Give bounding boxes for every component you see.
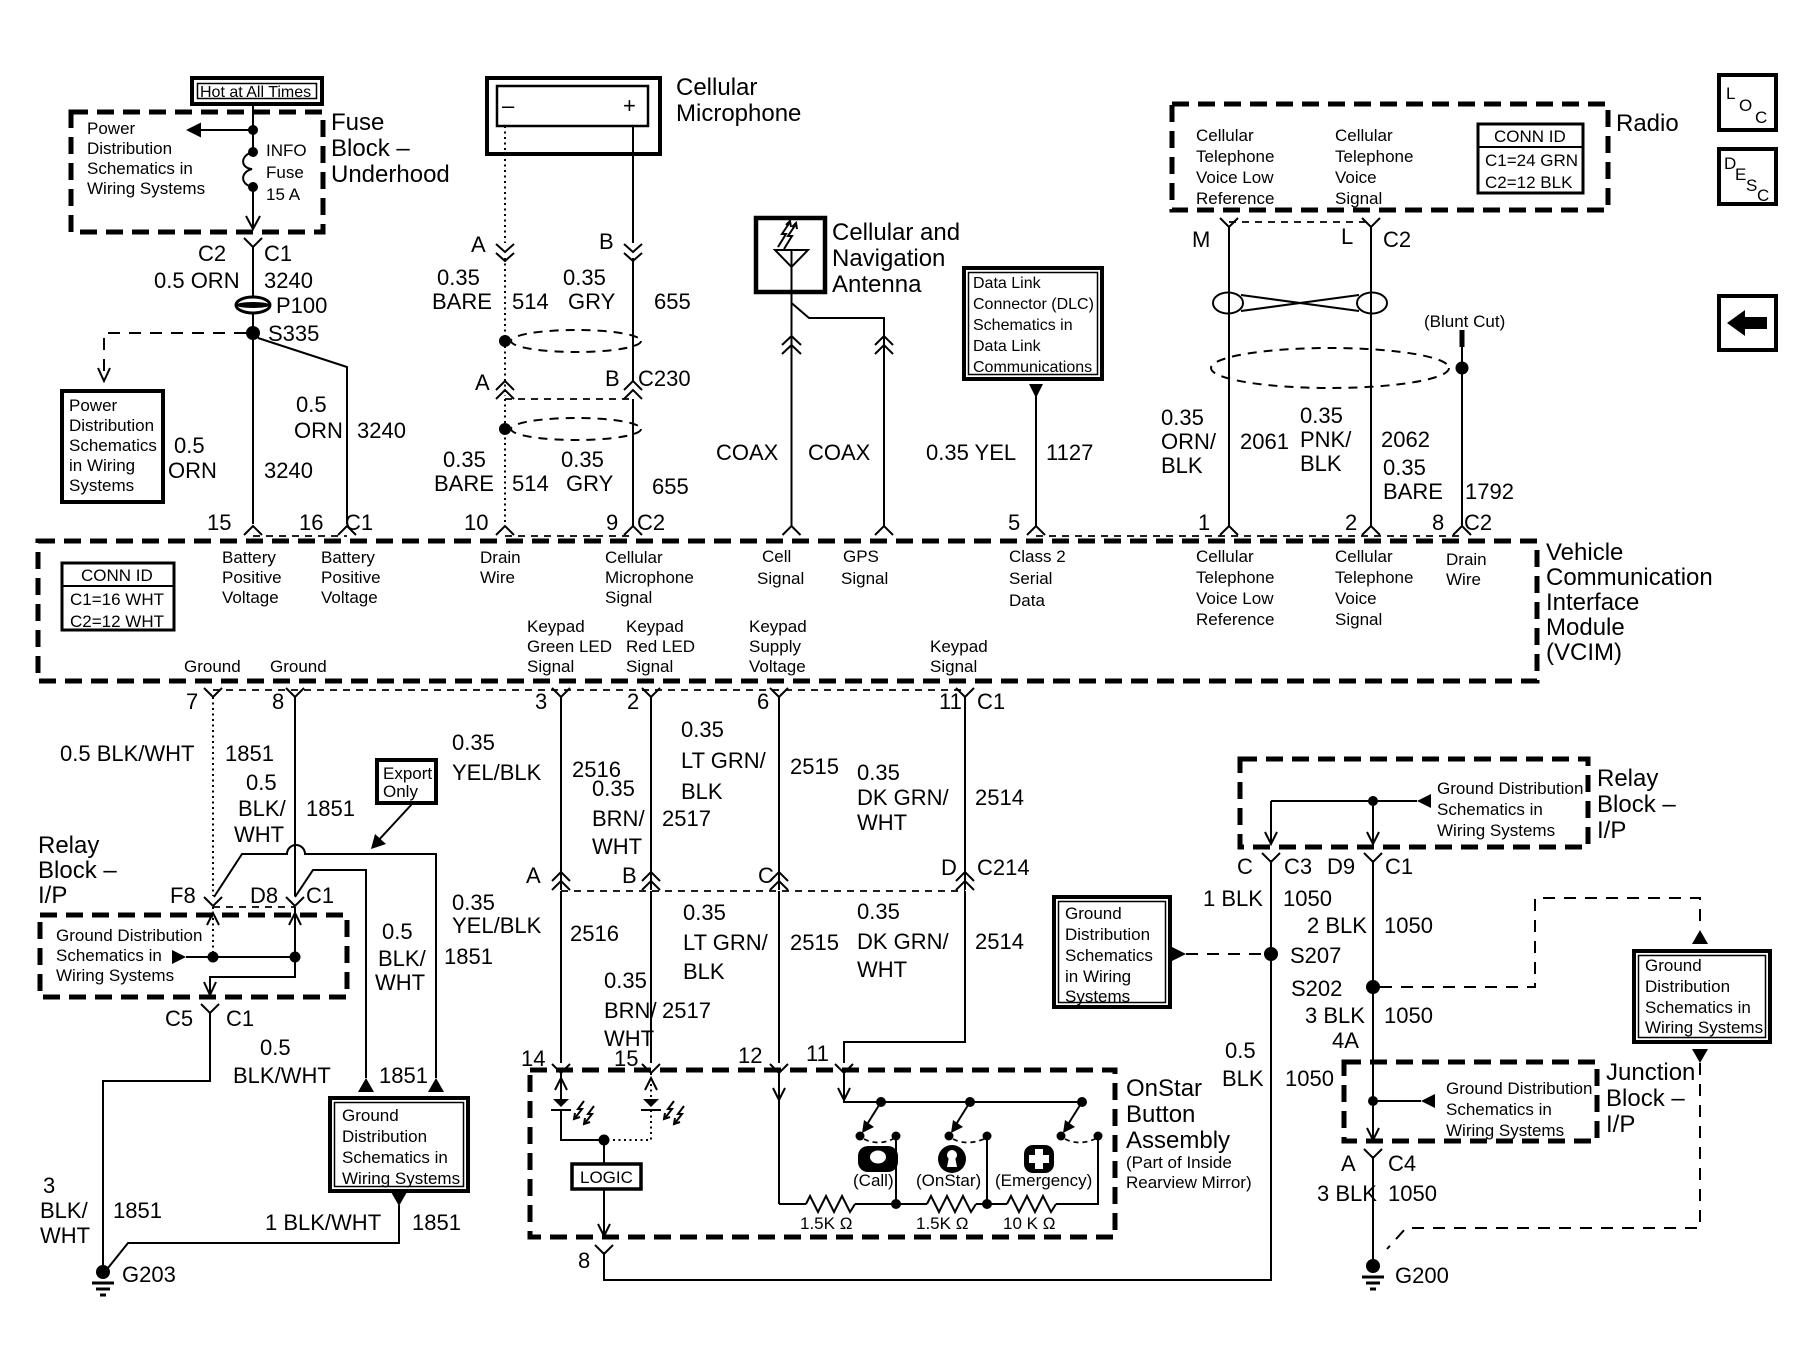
svg-text:C2: C2 [1383,227,1411,252]
junction dot inside junction block [1368,1096,1378,1106]
svg-text:I/P: I/P [1597,817,1626,844]
svg-text:Signal: Signal [605,588,652,607]
svg-text:514: 514 [512,471,549,496]
svg-text:Schematics in: Schematics in [973,317,1073,334]
inline chevrons cell coax [782,336,801,354]
class 2 serial data wire [1035,396,1037,526]
svg-text:Distribution: Distribution [69,416,154,435]
pin 8 exit chevron [286,688,304,697]
svg-text:–: – [502,93,515,118]
svg-text:0.35: 0.35 [1383,455,1426,480]
svg-text:G203: G203 [122,1262,176,1287]
svg-text:S202: S202 [1291,976,1342,1001]
wire P100 to S335 [252,313,254,332]
svg-text:8: 8 [272,689,284,714]
pin 2 exit chevron [642,688,660,697]
svg-text:C1: C1 [226,1006,254,1031]
svg-text:Voltage: Voltage [749,657,806,676]
svg-text:2: 2 [1345,510,1357,535]
wire R2 to R3 [976,1203,1007,1205]
svg-text:Relay: Relay [38,832,99,859]
label Cellular Microphone [676,74,801,127]
pin 8 exit chevron [595,1245,613,1254]
emergency icon [995,1145,1092,1190]
pin 10 connector chevron [496,526,514,535]
cellular microphone box [487,78,660,154]
drain wire 1792 [1461,347,1463,526]
arrow up D8 inside [289,913,301,925]
svg-text:Positive: Positive [222,568,282,587]
arrow down at fuse box exit [246,216,260,229]
node junction at arrow [248,125,258,135]
svg-text:3: 3 [535,689,547,714]
svg-text:Ground: Ground [270,657,327,676]
svg-text:10 K Ω: 10 K Ω [1003,1214,1055,1233]
svg-text:Data: Data [1009,591,1045,610]
radio CONN ID box [1478,124,1583,193]
svg-text:C2: C2 [198,241,226,266]
C214 chevrons wire A [552,872,570,890]
pin 8 chevron [1453,526,1471,535]
svg-text:DK GRN/: DK GRN/ [857,929,950,954]
svg-text:Block –: Block – [331,135,410,162]
svg-text:BLK: BLK [1300,451,1342,476]
svg-text:LT GRN/: LT GRN/ [683,930,769,955]
svg-text:Cellular: Cellular [605,548,663,567]
svg-text:(VCIM): (VCIM) [1546,639,1622,666]
svg-text:1127: 1127 [1046,440,1093,465]
pin 15 connector chevron [244,526,262,535]
svg-text:Cellular and: Cellular and [832,219,960,246]
svg-text:in Wiring: in Wiring [1065,967,1131,986]
svg-text:Keypad: Keypad [527,617,585,636]
pin chevron gps signal [875,526,893,535]
svg-text:0.35: 0.35 [437,265,480,290]
wire C to onstar pin12 [778,891,780,1063]
inline connector chevrons wire A [496,244,514,261]
svg-text:Telephone: Telephone [1335,568,1413,587]
svg-text:GPS: GPS [843,547,879,566]
shield ellipse upper (dashed) [511,330,641,352]
svg-text:YEL/BLK: YEL/BLK [452,760,542,785]
label cellular microphone signal pin9 [605,548,694,607]
inline chevrons gps coax [875,336,893,354]
svg-text:Drain: Drain [1446,550,1487,569]
svg-text:C1: C1 [1385,854,1413,879]
svg-text:BLK: BLK [681,779,723,804]
wire G203 to ground distribution reference [108,1205,399,1268]
svg-text:3: 3 [43,1173,55,1198]
svg-text:Wiring Systems: Wiring Systems [56,966,174,985]
svg-text:14: 14 [521,1046,545,1071]
junction block IP dashed box [1344,1062,1597,1141]
svg-text:1.5K Ω: 1.5K Ω [800,1214,852,1233]
svg-text:B: B [622,863,637,888]
switch bus dot emergency [1077,1097,1087,1107]
pin 6 exit chevron [770,688,788,697]
svg-text:Communications: Communications [973,359,1092,376]
svg-text:Block –: Block – [38,857,117,884]
svg-text:Only: Only [383,782,418,801]
pin 16 connector chevron [338,526,356,535]
svg-text:Distribution: Distribution [1645,977,1730,996]
wire bus down to C exit [1270,801,1272,844]
svg-text:C: C [1757,186,1769,205]
shield drain dot [1456,362,1469,375]
shield ellipse lower (dashed) [511,418,641,440]
label cellular telephone voice low reference pin1 [1196,547,1274,629]
svg-text:1851: 1851 [379,1063,428,1088]
label ground distribution schematics in wiring systems [56,926,202,985]
svg-text:DK GRN/: DK GRN/ [857,785,950,810]
svg-text:Reference: Reference [1196,189,1274,208]
svg-text:0.35: 0.35 [604,968,647,993]
SEC-NAV [38,539,1713,714]
svg-text:Telephone: Telephone [1335,147,1413,166]
wire C/C3 down to S207 [1270,860,1272,960]
svg-text:Wiring Systems: Wiring Systems [1437,821,1555,840]
pin 2 chevron [1362,526,1380,535]
svg-text:16: 16 [299,510,323,535]
export only arrow [371,804,412,849]
connector C230 chevrons wire A [496,381,514,399]
svg-text:0.35: 0.35 [857,899,900,924]
wire keypad green LED pin3 to C214 A [560,697,562,890]
svg-text:1851: 1851 [412,1210,461,1235]
svg-text:Communication: Communication [1546,564,1713,591]
svg-text:Signal: Signal [1335,610,1382,629]
svg-text:L: L [1341,224,1353,249]
wire S202 to junction block [1372,985,1374,1101]
resistor R1 1.5K [806,1196,855,1212]
svg-text:OnStar: OnStar [1126,1075,1202,1102]
LOC box [1719,75,1776,130]
svg-text:Cellular: Cellular [1335,547,1393,566]
svg-text:Wiring Systems: Wiring Systems [1645,1018,1763,1037]
svg-text:4A: 4A [1332,1028,1359,1053]
svg-text:1050: 1050 [1388,1181,1437,1206]
cellular and navigation antenna box [756,218,825,292]
switch bus dot onstar [965,1097,975,1107]
svg-text:Wire: Wire [480,568,515,587]
svg-text:Data Link: Data Link [973,338,1042,355]
svg-text:Schematics in: Schematics in [1446,1100,1552,1119]
wire D8 inside relay block [294,907,296,957]
off-page triangle below DLC box [1029,384,1043,398]
svg-text:Serial: Serial [1009,569,1052,588]
svg-text:S: S [1746,176,1757,195]
onstar button assembly dashed box [530,1070,1115,1237]
red LED [641,1099,684,1124]
pin 11 exit chevron [956,688,974,697]
svg-text:6: 6 [757,689,769,714]
svg-text:Connector (DLC): Connector (DLC) [973,296,1094,313]
svg-text:S207: S207 [1290,943,1341,968]
cell coax wire [791,292,793,526]
svg-text:3240: 3240 [264,458,313,483]
svg-text:8: 8 [1432,510,1444,535]
off-page triangle 1 BLK/WHT [391,1192,407,1206]
svg-text:C1: C1 [977,689,1005,714]
svg-text:WHT: WHT [857,810,907,835]
svg-text:514: 514 [512,289,549,314]
DESC box [1719,149,1776,205]
dashed reference from right box down to G200 [1387,1063,1700,1249]
connector line M-L [1229,221,1371,223]
svg-text:0.35 YEL: 0.35 YEL [926,440,1016,465]
svg-text:Cellular: Cellular [1196,547,1254,566]
pin 1 chevron [1220,526,1238,535]
svg-text:3240: 3240 [357,418,406,443]
antenna symbol [775,221,808,292]
dashed reference from S335 to power distribution box [98,333,246,381]
svg-text:Keypad: Keypad [626,617,684,636]
label keypad signal pin11 [930,637,988,676]
svg-text:Underhood: Underhood [331,161,450,188]
svg-text:+: + [623,93,636,118]
inline connector chevrons wire B [624,244,642,261]
junction dot R1-R2 tap [891,1199,901,1209]
svg-text:Antenna: Antenna [832,271,922,298]
svg-text:Green LED: Green LED [527,637,612,656]
svg-text:0.5: 0.5 [174,433,205,458]
C5 exit chevron [201,1004,219,1018]
svg-text:(OnStar): (OnStar) [916,1171,981,1190]
svg-text:I/P: I/P [1606,1111,1635,1138]
svg-text:Power: Power [69,396,118,415]
wire junction to LOGIC [603,1140,605,1164]
svg-text:Systems: Systems [1065,987,1130,1006]
svg-text:I/P: I/P [38,882,67,909]
wire red LED to logic junction (dotted) [604,1110,651,1140]
svg-text:Assembly: Assembly [1126,1127,1230,1154]
D9 exit chevron [1364,853,1382,862]
svg-text:Power: Power [87,119,136,138]
svg-text:0.35: 0.35 [452,730,495,755]
wire B from microphone [632,126,634,243]
svg-text:3240: 3240 [264,268,313,293]
wire pin 7 ground (dotted) to F8 [212,697,214,896]
svg-text:G200: G200 [1395,1263,1449,1288]
wire pin 8 ground to D8 [294,697,296,896]
switch bus dot call [876,1097,886,1107]
off-page triangle above right box [1692,930,1708,944]
svg-text:YEL/BLK: YEL/BLK [452,913,542,938]
svg-text:B: B [605,366,620,391]
svg-text:BARE: BARE [434,471,494,496]
svg-text:Voice Low: Voice Low [1196,589,1274,608]
svg-text:0.35: 0.35 [1161,405,1204,430]
svg-text:1.5K Ω: 1.5K Ω [916,1214,968,1233]
junction dot D8 bus [290,952,301,963]
svg-text:LOGIC: LOGIC [580,1168,633,1187]
svg-text:3 BLK: 3 BLK [1305,1003,1365,1028]
fuse block dashed box [71,112,323,232]
svg-text:C: C [1237,854,1253,879]
connector C230 dashed line [505,398,633,400]
svg-text:Signal: Signal [757,569,804,588]
onstar pin12 entry chevron [770,1064,788,1073]
svg-text:11: 11 [806,1041,829,1066]
back arrow box [1719,296,1776,350]
svg-text:A: A [1341,1151,1356,1176]
svg-text:Red LED: Red LED [626,637,695,656]
junction dot R2-R3 tap [982,1199,992,1209]
svg-text:Distribution: Distribution [1065,925,1150,944]
label keypad red LED signal pin2 [626,617,695,676]
wire B to onstar pin15 [650,891,652,1063]
svg-text:COAX: COAX [716,440,779,465]
svg-text:D9: D9 [1327,854,1355,879]
ground G203 [92,1262,176,1295]
connector C230 chevrons wire B [624,381,642,399]
svg-text:Signal: Signal [527,657,574,676]
wire B below C230 [632,399,634,526]
svg-text:1851: 1851 [113,1198,162,1223]
call switch arm [856,1102,901,1204]
svg-text:C1: C1 [264,241,292,266]
reference triangle and bus inside relay block [172,950,295,964]
wire D9/C1 down to S202 [1372,860,1374,987]
svg-text:Cellular: Cellular [1335,126,1393,145]
svg-text:ORN: ORN [168,458,217,483]
svg-text:PNK/: PNK/ [1300,427,1352,452]
svg-text:0.5: 0.5 [1225,1038,1256,1063]
svg-text:5: 5 [1008,510,1020,535]
svg-text:12: 12 [738,1043,762,1068]
svg-text:2517: 2517 [662,806,711,831]
wire from Hot at All Times down [252,104,254,148]
svg-text:CONN ID: CONN ID [81,566,153,585]
svg-text:2061: 2061 [1240,429,1289,454]
shield drain dot lower [499,423,511,435]
svg-text:L: L [1726,84,1735,103]
label drain wire pin10 [480,548,521,587]
ground G200 [1362,1259,1449,1289]
svg-text:C1: C1 [306,883,334,908]
svg-text:655: 655 [652,474,689,499]
LOGIC box [572,1164,641,1189]
svg-text:BLK: BLK [1222,1066,1264,1091]
svg-text:A: A [526,863,541,888]
gps coax branch wire [792,303,885,526]
svg-text:0.35: 0.35 [443,447,486,472]
connector line 15-16 [253,535,347,537]
svg-text:10: 10 [464,510,488,535]
arrow down C exit [1265,832,1277,844]
svg-text:0.35: 0.35 [1300,403,1343,428]
relay block IP dashed box left [40,915,347,997]
C214 chevrons wire C [770,872,788,890]
svg-text:Navigation: Navigation [832,245,945,272]
svg-text:BARE: BARE [432,289,492,314]
svg-text:0.35: 0.35 [592,776,635,801]
svg-text:Ground: Ground [342,1106,399,1125]
svg-text:15 A: 15 A [266,185,301,204]
svg-text:BLK/: BLK/ [378,946,427,971]
svg-text:1050: 1050 [1285,1066,1334,1091]
svg-text:COAX: COAX [808,440,871,465]
svg-text:Interface: Interface [1546,589,1639,616]
svg-text:WHT: WHT [234,822,284,847]
wire pin12 inside to resistor ladder [773,1073,785,1204]
radio dashed box [1172,104,1608,210]
svg-text:0.5 ORN: 0.5 ORN [154,268,240,293]
label Junction Block - I/P [1606,1059,1695,1138]
svg-text:C2=12 WHT: C2=12 WHT [70,612,164,631]
svg-text:BLK: BLK [683,959,725,984]
svg-text:Schematics in: Schematics in [87,159,193,178]
pin 5 connector chevron [1027,526,1045,535]
C214 connector dashed line [561,890,965,892]
svg-text:INFO: INFO [266,141,307,160]
ground wire from D8 to ground distribution box [295,870,366,1078]
svg-text:ORN/: ORN/ [1161,429,1217,454]
svg-text:15: 15 [614,1046,638,1071]
label keypad green LED signal pin3 [527,617,612,676]
svg-text:0.5: 0.5 [260,1035,291,1060]
svg-text:D: D [941,855,957,880]
splice S207 [1264,947,1278,961]
svg-text:Microphone: Microphone [605,568,694,587]
svg-text:Schematics: Schematics [1065,946,1153,965]
label Relay Block - I/P left [38,832,117,909]
svg-text:0.5 BLK/WHT: 0.5 BLK/WHT [60,741,194,766]
data link connector reference box [964,268,1102,379]
svg-text:GRY: GRY [566,471,614,496]
svg-text:WHT: WHT [40,1223,90,1248]
label ground distribution schematics (relay right) [1437,779,1583,840]
connector line 10-9 [505,535,633,537]
svg-text:Supply: Supply [749,637,801,656]
wire C5 to G203 [103,1016,210,1266]
arrow down at C5 exit [204,982,216,995]
svg-text:Voice: Voice [1335,168,1377,187]
svg-text:C1: C1 [345,510,373,535]
blunt cut stub [1460,330,1465,347]
svg-text:C3: C3 [1284,854,1312,879]
svg-text:Battery: Battery [321,548,375,567]
F8 entry chevron [204,897,222,906]
ground distribution solid box (S207 reference) [1054,897,1170,1007]
pin 7 exit chevron [204,688,222,697]
label Power Distribution Schematics in Wiring Systems [87,119,205,198]
pin chevron cell signal [783,526,801,535]
onstar pin11 entry chevron [835,1064,853,1073]
resistor R2 1.5K [927,1196,976,1212]
svg-text:2515: 2515 [790,754,839,779]
svg-text:ORN: ORN [294,418,343,443]
svg-text:Block –: Block – [1606,1085,1685,1112]
svg-text:Schematics: Schematics [69,436,157,455]
svg-text:Telephone: Telephone [1196,147,1274,166]
svg-text:C5: C5 [165,1006,193,1031]
svg-text:0.5: 0.5 [382,919,413,944]
wire D to onstar pin11 [844,891,965,1063]
svg-text:BARE: BARE [1383,479,1443,504]
svg-text:A: A [475,370,490,395]
radio shield ellipse (dashed) [1211,348,1449,388]
onstar pin14 entry chevron [552,1064,570,1073]
svg-text:Ground: Ground [1065,904,1122,923]
svg-text:Rearview Mirror): Rearview Mirror) [1126,1173,1252,1192]
svg-text:Drain: Drain [480,548,521,567]
svg-text:WHT: WHT [375,970,425,995]
svg-text:Systems: Systems [69,476,134,495]
label OnStar Button Assembly [1126,1075,1252,1192]
svg-text:Voltage: Voltage [222,588,279,607]
label gps signal [841,547,888,588]
